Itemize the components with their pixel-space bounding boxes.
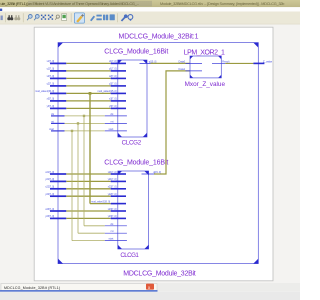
XOR pin Data0 [179, 60, 202, 63]
junction clk [83, 115, 85, 117]
input port y1[7..0] (upper) [47, 68, 67, 72]
svg-text:ule_32Bit (RTL1): ule_32Bit (RTL1) [1, 1, 28, 6]
CLCG2 pin y2[7..0] [109, 83, 126, 87]
svg-text:mod_value1[15..0]: mod_value1[15..0] [98, 90, 117, 93]
svg-text:rst: rst [111, 230, 114, 233]
CLCG1 pin x22[7..0] [108, 186, 126, 190]
input port x22[7..0] (lower) [45, 186, 66, 190]
svg-text:x23[7..0]: x23[7..0] [108, 208, 117, 211]
svg-text:Data1: Data1 [179, 68, 186, 71]
CLCG2 pin rst [105, 120, 127, 123]
input port y3[7..0] (upper) [47, 105, 67, 109]
svg-text:x23[7..0]: x23[7..0] [45, 208, 54, 211]
svg-text:x1[7..0]: x1[7..0] [47, 60, 55, 63]
svg-text:start: start [49, 128, 54, 131]
CLCG1 pin x23[7..0] [108, 208, 126, 212]
svg-text:x1[7..0]: x1[7..0] [109, 60, 117, 63]
wire clk to CLCG2 [65, 115, 105, 117]
wire x23[7..0] to CLCG1 [66, 210, 110, 212]
junction rst [77, 122, 79, 124]
svg-text:y21[7..0]: y21[7..0] [108, 178, 117, 181]
toolbar [0, 12, 300, 25]
wire start vertical tap to CLCG1 [72, 131, 105, 241]
CLCG2 pin y1[7..0] [109, 68, 126, 72]
CLCG2 pin x2[7..0] [109, 75, 126, 79]
svg-text:MDCLCG_Module_32Bit: MDCLCG_Module_32Bit [123, 271, 196, 278]
wire x3[7..0] to CLCG2 [66, 100, 110, 102]
CLCG1 pin mod_value2[15..0] [91, 200, 126, 204]
svg-text:[an Efficient VLSI Architectur: [an Efficient VLSI Architecture of Three… [27, 2, 139, 6]
wire mod_value1[15..0] to CLCG2 [66, 92, 110, 94]
junction mod_value1 [89, 92, 92, 95]
wire CLCG2.q to XOR Data0 [151, 62, 191, 64]
svg-text:Z_value: Z_value [263, 60, 273, 64]
CLCG1 pin y23[7..0] [108, 215, 126, 219]
input port x1[7..0] (upper) [47, 60, 67, 64]
svg-text:x3[7..0]: x3[7..0] [109, 98, 117, 101]
input port x23[7..0] (lower) [45, 208, 66, 212]
svg-text:CLCG_Module_16Bit: CLCG_Module_16Bit [104, 49, 168, 56]
svg-text:LPM_XOR2_1: LPM_XOR2_1 [184, 49, 225, 56]
svg-text:x2[7..0]: x2[7..0] [109, 75, 117, 78]
svg-text:Mxor_Z_value: Mxor_Z_value [185, 81, 226, 88]
svg-text:y1[7..0]: y1[7..0] [47, 68, 55, 71]
svg-text:mod_value1[15..0]: mod_value1[15..0] [35, 90, 54, 93]
svg-text:CLCG1: CLCG1 [120, 252, 139, 259]
CLCG2 pin mod_value1[15..0] [98, 90, 126, 94]
input port rst [51, 120, 65, 124]
wire CLCG1.q riser to XOR Data1 [154, 71, 190, 174]
wire y2[7..0] to CLCG2 [66, 85, 110, 87]
wire rst to CLCG2 [65, 122, 105, 124]
svg-text:start: start [109, 238, 114, 241]
wire XOR.Result to output Z_value [225, 62, 253, 64]
wire clk vertical tap to CLCG1 [84, 116, 105, 226]
svg-text:x22[7..0]: x22[7..0] [45, 186, 54, 189]
XOR pin Result [212, 60, 230, 63]
svg-text:y22[7..0]: y22[7..0] [108, 193, 117, 196]
wire mod_value1 vertical tap to CLCG1 [90, 93, 111, 203]
wire x1[7..0] to CLCG2 [66, 62, 110, 64]
svg-text:CLCG2: CLCG2 [122, 140, 142, 147]
module boundary MDCLCG_Module_32Bit:1 [58, 43, 258, 264]
svg-text:y3[7..0]: y3[7..0] [47, 105, 55, 108]
menu strip [0, 7, 300, 11]
CLCG2 pin x3[7..0] [109, 98, 126, 102]
input port start [49, 128, 64, 132]
svg-text:y23[7..0]: y23[7..0] [45, 215, 54, 218]
svg-text:x21[7..0]: x21[7..0] [45, 171, 54, 174]
svg-text:x22[7..0]: x22[7..0] [108, 186, 117, 189]
svg-text:Data0: Data0 [179, 60, 186, 63]
CLCG1 pin clk [105, 223, 127, 226]
svg-text:y21[7..0]: y21[7..0] [45, 178, 54, 181]
wire x21[7..0] to CLCG1 [66, 173, 110, 175]
window title bar [0, 0, 300, 7]
svg-text:y3[7..0]: y3[7..0] [109, 105, 117, 108]
CLCG1 pin y22[7..0] [108, 193, 126, 197]
svg-text:MDCLCG_Module_32Bit (RTL1): MDCLCG_Module_32Bit (RTL1) [4, 286, 60, 290]
wire start to CLCG2 [65, 130, 105, 132]
CLCG2 output pin q[15..0] [140, 60, 157, 63]
input port x2[7..0] (upper) [47, 75, 67, 79]
svg-text:Module_32Bit\MDCLCG.rtl.v ...: Module_32Bit\MDCLCG.rtl.v ... [Design Su… [160, 2, 284, 6]
wire y3[7..0] to CLCG2 [66, 107, 110, 109]
svg-text:y2[7..0]: y2[7..0] [109, 83, 117, 86]
instance CLCG1 : CLCG_Module_16Bit [118, 171, 149, 249]
input port y23[7..0] (lower) [45, 215, 66, 219]
svg-text:y1[7..0]: y1[7..0] [109, 68, 117, 71]
CLCG1 pin y21[7..0] [108, 178, 126, 182]
XOR pin Data1 [179, 68, 202, 71]
svg-text:CLCG_Module_16Bit: CLCG_Module_16Bit [104, 159, 168, 166]
input port x21[7..0] (lower) [45, 171, 66, 175]
CLCG2 pin y3[7..0] [109, 105, 126, 109]
input port y21[7..0] (lower) [45, 178, 66, 182]
CLCG1 pin x21[7..0] [108, 171, 126, 175]
wire y1[7..0] to CLCG2 [66, 70, 110, 72]
input port x3[7..0] (upper) [47, 98, 67, 102]
svg-text:rst: rst [51, 120, 54, 123]
wire rst vertical tap to CLCG1 [78, 123, 105, 233]
svg-text:mod_value2[15..0]: mod_value2[15..0] [91, 200, 110, 203]
svg-text:rst: rst [111, 120, 114, 123]
gate U1 LPM_XOR2_1 (Mxor_Z_value) [190, 56, 221, 78]
svg-text:start: start [109, 128, 114, 131]
wire y22[7..0] to CLCG1 [66, 195, 110, 197]
svg-text:MDCLCG_Module_32Bit:1: MDCLCG_Module_32Bit:1 [119, 34, 199, 41]
wire y21[7..0] to CLCG1 [66, 180, 110, 182]
wire x22[7..0] to CLCG1 [66, 188, 110, 190]
CLCG2 pin start [105, 128, 127, 131]
svg-text:y2[7..0]: y2[7..0] [47, 83, 55, 86]
wire y23[7..0] to CLCG1 [66, 217, 110, 219]
svg-text:x21[7..0]: x21[7..0] [108, 171, 117, 174]
junction start [71, 130, 73, 132]
CLCG2 pin x1[7..0] [109, 60, 126, 64]
svg-text:y22[7..0]: y22[7..0] [45, 193, 54, 196]
svg-text:x3[7..0]: x3[7..0] [47, 98, 55, 101]
bottom tab bar [0, 283, 300, 300]
CLCG2 pin clk [105, 113, 127, 116]
instance CLCG2 : CLCG_Module_16Bit [118, 60, 147, 137]
input port clk [51, 113, 65, 117]
svg-text:y23[7..0]: y23[7..0] [108, 215, 117, 218]
CLCG1 output pin q[15..0] [142, 171, 162, 174]
output port Z_value [253, 60, 272, 64]
canvas frame [34, 27, 273, 281]
toolbar icons [1, 13, 133, 23]
svg-text:x2[7..0]: x2[7..0] [47, 75, 55, 78]
CLCG1 pin start [105, 238, 127, 241]
wire x2[7..0] to CLCG2 [66, 77, 110, 79]
input port y22[7..0] (lower) [45, 193, 66, 197]
CLCG1 pin rst [105, 230, 127, 233]
input port mod_value1[15..0] (upper) [35, 90, 66, 94]
input port y2[7..0] (upper) [47, 83, 67, 87]
